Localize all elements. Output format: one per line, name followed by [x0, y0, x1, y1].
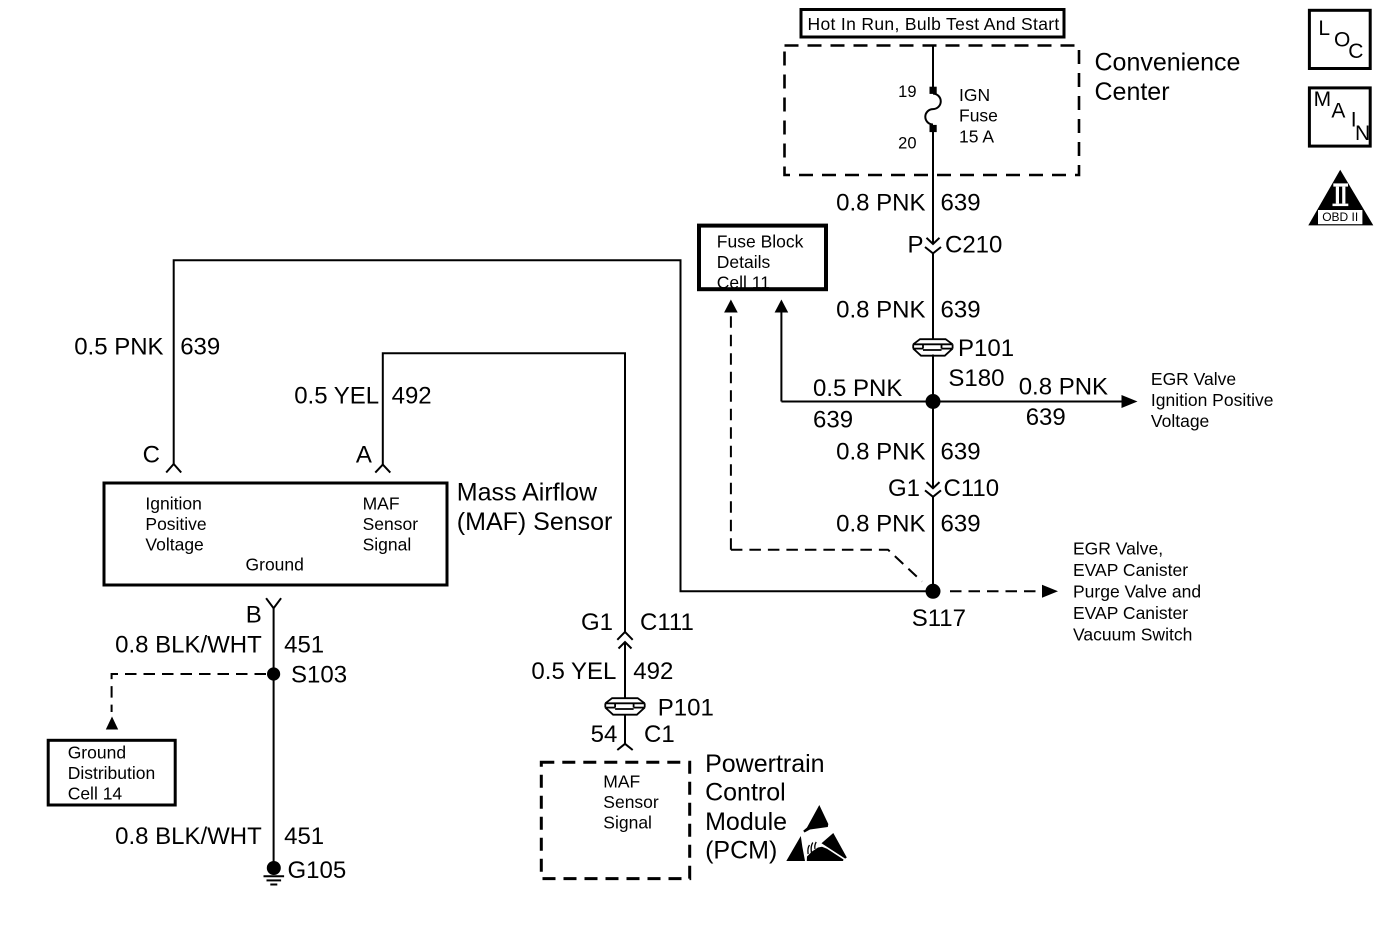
svg-text:Center: Center — [1095, 78, 1170, 106]
MAF sensor box — [104, 483, 447, 585]
svg-text:IGN: IGN — [959, 85, 990, 105]
note EGR Valve EVAP Canister Purge Valve and EVAP Canister Vacuum Switch — [1073, 538, 1201, 644]
svg-text:0.8 PNK: 0.8 PNK — [836, 297, 925, 324]
svg-text:0.8 BLK/WHT: 0.8 BLK/WHT — [115, 823, 262, 850]
svg-text:Positive: Positive — [145, 514, 206, 534]
dashed reference arrow up to Fuse Block box — [724, 300, 738, 550]
svg-text:C1: C1 — [644, 721, 675, 748]
svg-text:Purge Valve and: Purge Valve and — [1073, 581, 1201, 601]
Convenience Center name — [1095, 49, 1241, 107]
svg-text:Voltage: Voltage — [1151, 411, 1209, 431]
svg-text:0.5 PNK: 0.5 PNK — [813, 375, 902, 402]
svg-text:20: 20 — [898, 135, 916, 153]
svg-text:0.8 PNK: 0.8 PNK — [836, 190, 925, 217]
svg-text:Powertrain: Powertrain — [705, 750, 825, 778]
Ground Distribution Cell 14 box — [48, 740, 175, 805]
power feed label box "Hot In Run, Bulb Test And Start" — [801, 10, 1064, 38]
ground G105 symbol — [264, 861, 285, 885]
svg-text:EGR Valve: EGR Valve — [1151, 369, 1236, 389]
wire label 0.8 PNK 639 (3) — [836, 439, 980, 466]
svg-text:EGR Valve,: EGR Valve, — [1073, 538, 1163, 558]
svg-text:OBD II: OBD II — [1322, 210, 1358, 224]
wire label 0.8 PNK 639 (2) — [836, 297, 980, 324]
PCM pin function MAF Sensor Signal — [603, 771, 659, 832]
svg-text:C: C — [1348, 40, 1363, 63]
dashed reference from Fuse Block arrow down and over to S117 — [731, 550, 922, 582]
svg-text:P101: P101 — [958, 335, 1014, 362]
svg-text:Ground: Ground — [246, 555, 304, 575]
svg-text:EVAP Canister: EVAP Canister — [1073, 603, 1188, 623]
dashed arrow from S117 to EVAP note — [950, 585, 1058, 598]
wire MAF terminal A up, across and down to C111 — [383, 353, 625, 632]
svg-text:Signal: Signal — [363, 535, 412, 555]
grommet P101 (lower) — [605, 698, 644, 715]
svg-text:G105: G105 — [288, 857, 347, 884]
ESD sensitivity symbol — [786, 805, 847, 861]
svg-text:A: A — [1331, 100, 1345, 123]
svg-text:S103: S103 — [291, 662, 347, 689]
wire label 0.8 PNK 639 (1) — [836, 190, 980, 217]
svg-text:Module: Module — [705, 808, 787, 836]
wire label 0.5 YEL 492 (lower) — [531, 658, 673, 685]
svg-text:0.5 PNK: 0.5 PNK — [74, 334, 163, 361]
svg-text:Voltage: Voltage — [145, 535, 203, 555]
svg-text:A: A — [356, 441, 372, 468]
svg-text:Mass Airflow: Mass Airflow — [457, 479, 598, 507]
Convenience Center dashed enclosure — [785, 46, 1080, 176]
MAF pin function Ignition Positive Voltage — [145, 494, 206, 555]
svg-text:0.8 PNK: 0.8 PNK — [836, 439, 925, 466]
svg-text:Sensor: Sensor — [603, 792, 659, 812]
Mass Airflow (MAF) Sensor name — [457, 479, 613, 536]
wire label 0.5 YEL 492 (upper) — [294, 383, 431, 410]
svg-text:C111: C111 — [640, 609, 694, 636]
svg-text:MAF: MAF — [603, 771, 640, 791]
svg-text:639: 639 — [1026, 404, 1066, 431]
svg-text:19: 19 — [898, 83, 916, 101]
svg-text:Hot In Run, Bulb Test And Star: Hot In Run, Bulb Test And Start — [808, 14, 1060, 34]
svg-text:492: 492 — [392, 383, 432, 410]
wire label 0.8 BLK/WHT 451 (1) — [115, 632, 324, 659]
svg-text:Signal: Signal — [603, 812, 652, 832]
svg-text:Details: Details — [717, 252, 771, 272]
svg-text:639: 639 — [941, 297, 981, 324]
wire MAF terminal C up, across and down to S117 — [174, 260, 933, 591]
wire P101 to S180 — [932, 355, 934, 402]
terminal B chevron — [266, 598, 281, 608]
OBD II icon triangle — [1308, 170, 1373, 226]
terminal A chevron — [375, 465, 390, 473]
svg-text:Distribution: Distribution — [68, 763, 156, 783]
svg-text:639: 639 — [941, 511, 981, 538]
svg-text:0.5 YEL: 0.5 YEL — [294, 383, 379, 410]
wire label 0.8 BLK/WHT 451 (2) — [115, 823, 324, 850]
splice S117 dot — [926, 584, 941, 599]
terminal C1 chevron — [617, 744, 632, 750]
svg-text:Ignition: Ignition — [145, 494, 201, 514]
svg-text:S117: S117 — [912, 605, 966, 632]
solid arrow up to Fuse Block box — [775, 300, 789, 402]
svg-text:0.8 PNK: 0.8 PNK — [836, 511, 925, 538]
svg-text:0.5 YEL: 0.5 YEL — [531, 658, 616, 685]
svg-text:Fuse: Fuse — [959, 106, 998, 126]
svg-text:Ground: Ground — [68, 742, 126, 762]
svg-text:C: C — [143, 441, 160, 468]
svg-text:0.8 BLK/WHT: 0.8 BLK/WHT — [115, 632, 262, 659]
wire S180 right to EGR Valve arrow — [933, 395, 1138, 408]
wire C111 to P101 lower — [624, 642, 626, 699]
svg-text:15 A: 15 A — [959, 126, 994, 146]
svg-text:639: 639 — [941, 190, 981, 217]
fuse value label — [959, 85, 998, 147]
fuse IGN 15 A (S-curve element with end squares) — [925, 87, 940, 132]
svg-text:(MAF) Sensor: (MAF) Sensor — [457, 508, 613, 536]
connector C210 (inline chevrons) — [925, 238, 941, 254]
svg-text:Fuse Block: Fuse Block — [717, 231, 804, 251]
Fuse Block Details Cell 11 box — [699, 226, 826, 293]
PCM dashed box — [541, 762, 689, 878]
svg-text:EVAP Canister: EVAP Canister — [1073, 560, 1188, 580]
svg-text:S180: S180 — [948, 365, 1004, 392]
Powertrain Control Module (PCM) name — [705, 750, 825, 864]
wire fuse to C210 — [932, 132, 934, 244]
wire label 0.8 PNK 639 (4) — [836, 511, 980, 538]
svg-text:(PCM): (PCM) — [705, 836, 777, 864]
svg-text:Vacuum Switch: Vacuum Switch — [1073, 624, 1192, 644]
connector C110 (inline chevrons) — [925, 482, 941, 497]
svg-text:Control: Control — [705, 778, 786, 806]
wire C210 to P101 — [932, 253, 934, 339]
note EGR Valve Ignition Positive Voltage — [1151, 369, 1274, 431]
terminal C chevron — [166, 464, 181, 473]
svg-text:N: N — [1355, 122, 1370, 145]
svg-text:G1: G1 — [581, 609, 613, 636]
wire B terminal to G105 — [273, 608, 275, 868]
grommet P101 (upper) — [913, 339, 952, 356]
splice S180 dot — [926, 394, 941, 409]
wire S180 to C110 — [932, 402, 934, 489]
splice S103 dot — [267, 667, 280, 680]
wire label 0.5 PNK 639 (left) — [74, 334, 220, 361]
svg-text:639: 639 — [180, 334, 220, 361]
svg-text:B: B — [246, 602, 262, 629]
wire C110 to S117 — [932, 497, 934, 592]
svg-text:639: 639 — [941, 439, 981, 466]
svg-text:P: P — [907, 231, 923, 258]
svg-text:54: 54 — [591, 721, 618, 748]
LOC icon box — [1309, 10, 1370, 68]
svg-text:492: 492 — [633, 658, 673, 685]
svg-text:M: M — [1314, 88, 1332, 111]
svg-text:G1: G1 — [888, 475, 920, 502]
wire P101 lower to PCM terminal — [624, 714, 626, 744]
svg-text:Ignition Positive: Ignition Positive — [1151, 390, 1274, 410]
svg-text:Cell 14: Cell 14 — [68, 783, 123, 803]
MAF pin function MAF Sensor Signal — [363, 494, 419, 555]
svg-text:C210: C210 — [945, 231, 1002, 258]
svg-text:MAF: MAF — [363, 494, 400, 514]
wire from power feed into fuse — [932, 46, 934, 87]
svg-text:L: L — [1318, 17, 1330, 40]
svg-text:Sensor: Sensor — [363, 514, 419, 534]
svg-text:Cell 11: Cell 11 — [717, 272, 770, 292]
svg-text:C110: C110 — [944, 475, 1000, 502]
svg-text:0.8 PNK: 0.8 PNK — [1019, 374, 1108, 401]
svg-text:639: 639 — [813, 407, 853, 434]
svg-text:451: 451 — [284, 823, 324, 850]
svg-text:451: 451 — [284, 632, 324, 659]
svg-text:P101: P101 — [658, 695, 714, 722]
connector C111 (inline chevrons) — [617, 632, 632, 649]
dashed reference from S103 to Ground Distribution box — [106, 674, 266, 730]
svg-text:Convenience: Convenience — [1095, 49, 1241, 77]
MAIN icon box — [1309, 88, 1370, 146]
wire S180 splice to fuse-block arrow (left) — [781, 401, 933, 403]
